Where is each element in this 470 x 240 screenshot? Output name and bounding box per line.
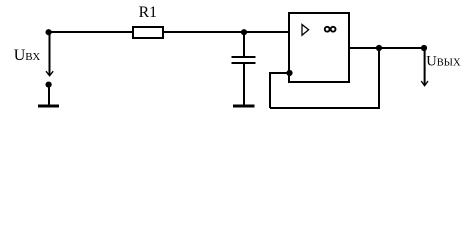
wire op-amp output <box>349 47 424 49</box>
node input junction <box>46 29 52 35</box>
wire ground stem input <box>48 85 50 106</box>
wire capacitor top lead <box>243 32 245 57</box>
op-amp infinite gain symbol <box>325 27 336 32</box>
capacitor C1 <box>232 57 256 63</box>
arrow Uvyx voltage <box>421 49 428 86</box>
node capacitor junction <box>241 29 247 35</box>
wire capacitor bottom lead <box>243 63 245 106</box>
node inverting input junction <box>286 70 292 76</box>
node ground input <box>46 82 52 88</box>
wire feedback right vertical <box>378 48 380 108</box>
wire R1 to op-amp input <box>163 31 289 33</box>
ground capacitor <box>233 105 255 108</box>
op-amp U1 body <box>289 13 349 82</box>
arrow Uvx voltage <box>46 33 53 76</box>
wire feedback bottom <box>270 107 380 109</box>
wire feedback to inverting input <box>269 72 290 74</box>
op-amp amplifier triangle symbol <box>302 25 309 36</box>
svg-text:R1: R1 <box>139 4 157 21</box>
wire feedback left vertical <box>269 73 271 108</box>
wire input to R1 <box>48 31 133 33</box>
ground input <box>38 105 59 108</box>
node output terminal <box>421 45 427 51</box>
node feedback junction <box>376 45 382 51</box>
resistor R1 <box>133 4 163 38</box>
